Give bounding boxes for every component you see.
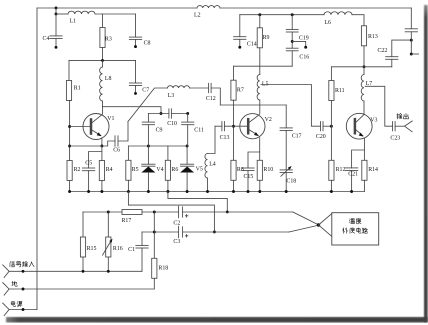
node: C19/C16 junction dot bbox=[291, 40, 294, 43]
wire: diagonal C2-line to converge point bbox=[293, 212, 319, 225]
svg-text:C15: C15 bbox=[244, 174, 254, 180]
node: dot (23,271.3) bbox=[22, 270, 25, 273]
wire: y=66.8 R11 to C22 bbox=[331, 66, 391, 68]
wire: L6 to R13 column bbox=[352, 15, 364, 26]
shadow: right band bbox=[424, 5, 428, 322]
wire: common rail y=191.5 bbox=[70, 191, 365, 193]
svg-text:C9: C9 bbox=[156, 127, 163, 133]
wire: C3 to diagonal bbox=[183, 231, 289, 233]
label: 温度 (temperature, box line 1) bbox=[349, 218, 361, 224]
node: dot R15 bottom bbox=[82, 270, 85, 273]
svg-text:R11: R11 bbox=[335, 88, 345, 94]
wire: mid feed y=14.7 (C14 to L6) bbox=[240, 14, 324, 16]
resistor R13 bbox=[361, 26, 377, 67]
svg-text:C1: C1 bbox=[128, 247, 135, 253]
node: dot C19 top (292.2,14.7) bbox=[291, 13, 294, 16]
svg-text:C6: C6 bbox=[113, 148, 120, 154]
wire: top supply rail (y=8) left of L2 bbox=[37, 7, 197, 9]
capacitor C18 (trimmer) bbox=[280, 166, 297, 192]
svg-text:R15: R15 bbox=[87, 246, 97, 252]
node: rail dot x=167.9 bbox=[166, 190, 169, 193]
inductor L7 bbox=[361, 67, 372, 114]
svg-text:C22: C22 bbox=[378, 48, 388, 54]
resistor R4 bbox=[99, 146, 112, 192]
node: V2 base junction dot bbox=[232, 125, 235, 128]
svg-text:C8: C8 bbox=[144, 41, 151, 47]
wire: diagonal C3-line to converge point bbox=[289, 225, 319, 232]
node: dot R16 top (108.3,212) bbox=[107, 211, 110, 214]
svg-text:C2: C2 bbox=[173, 221, 180, 227]
capacitor C10 bbox=[167, 108, 188, 127]
wire: emitter row y=146 bbox=[70, 145, 102, 147]
svg-text:R2: R2 bbox=[74, 167, 81, 173]
svg-text:R6: R6 bbox=[171, 167, 178, 173]
node: dot (154.3,212) bbox=[153, 211, 156, 214]
node: V1 emitter dot (101.9,146) bbox=[100, 145, 103, 148]
svg-text:C16: C16 bbox=[299, 54, 309, 60]
transistor V1 bbox=[83, 114, 114, 140]
svg-text:C10: C10 bbox=[167, 121, 177, 127]
svg-text:R7: R7 bbox=[237, 87, 244, 93]
wire: y=14 feed from stub to L1 bbox=[56, 13, 68, 15]
svg-text:R18: R18 bbox=[158, 266, 168, 272]
node: dot (411.3,40.1) bbox=[410, 39, 413, 42]
capacitor C20 bbox=[316, 121, 332, 140]
wire: C12 jog down to y=105 bbox=[211, 88, 220, 105]
varactor diode V5 bbox=[180, 146, 203, 192]
inductor L2 (in top rail) bbox=[194, 6, 220, 19]
wire: y=105 run to C17 column bbox=[220, 104, 286, 106]
svg-text:C4: C4 bbox=[43, 36, 50, 42]
node: dot (154.3,232) bbox=[153, 231, 156, 234]
svg-text:L4: L4 bbox=[209, 162, 216, 168]
svg-text:C13: C13 bbox=[220, 135, 230, 141]
wire: node wire y=66.2 (R7..C16) bbox=[234, 65, 293, 67]
svg-text:R13: R13 bbox=[368, 34, 378, 40]
label: 输出 (output) bbox=[397, 113, 409, 119]
svg-text:V1: V1 bbox=[107, 116, 114, 122]
svg-text:C21: C21 bbox=[348, 171, 358, 177]
resistor R5 bbox=[126, 146, 139, 192]
capacitor C14 bbox=[233, 15, 257, 49]
node: dot (214.4,231.9) bbox=[213, 230, 216, 233]
resistor R18 bbox=[152, 258, 169, 289]
capacitor C21 bbox=[345, 150, 364, 192]
label: 信号输入 (signal input) bbox=[10, 261, 34, 267]
wire: R7-R8 column through base node bbox=[233, 100, 235, 160]
inductor L4 bbox=[205, 126, 216, 191]
node: rail dot x=331.4 bbox=[330, 190, 333, 193]
capacitor C6 with jog from emitter bbox=[102, 122, 128, 154]
svg-text:C11: C11 bbox=[194, 127, 204, 133]
capacitor C5 bbox=[82, 152, 102, 192]
svg-text:R16: R16 bbox=[113, 246, 123, 252]
wire: R17 to C2 bbox=[142, 211, 179, 213]
wire: base/bias column x=69.6 (R1 to R2) bbox=[69, 101, 71, 161]
node: stub end dot (305.7,47.2) bbox=[304, 46, 307, 49]
capacitor C7 bbox=[129, 60, 149, 94]
svg-text:L3: L3 bbox=[168, 93, 175, 99]
node: V3 base junction dot bbox=[330, 125, 333, 128]
capacitor C11 bbox=[181, 114, 204, 147]
capacitor (top right, unlabeled) bbox=[405, 8, 418, 54]
wire: stub (56,8)-(56,14) bbox=[55, 8, 57, 14]
capacitor C22 bbox=[378, 40, 412, 67]
terminal: ground 地 bbox=[3, 283, 9, 296]
inductor L6 bbox=[324, 12, 352, 26]
resistor R3 bbox=[100, 14, 112, 60]
wire: ground row y=289 bbox=[9, 288, 154, 290]
wire: V2 base wire from L4 column via C13 bbox=[215, 125, 222, 127]
svg-text:V4: V4 bbox=[156, 167, 163, 173]
resistor R11 bbox=[329, 67, 345, 126]
node: rail dot x=69.6 bbox=[68, 190, 71, 193]
node: dot at (56,14) bbox=[55, 13, 58, 16]
svg-text:C12: C12 bbox=[206, 96, 216, 102]
capacitor C3 (electrolytic) bbox=[173, 226, 188, 245]
node: dot (23,309.5) bbox=[22, 308, 25, 311]
svg-text:C14: C14 bbox=[247, 42, 257, 48]
svg-text:V5: V5 bbox=[196, 167, 203, 173]
wire: V1 base wire bbox=[70, 126, 90, 128]
wire: y=212 from R15 to R17 bbox=[83, 211, 122, 213]
svg-text:R17: R17 bbox=[122, 218, 132, 224]
capacitor C15 bbox=[241, 152, 259, 192]
wire: L7 tap to output row bbox=[365, 86, 393, 126]
node: rail dot x=88.6 bbox=[87, 190, 90, 193]
capacitor C16 bbox=[286, 48, 309, 66]
resistor R16 (adjustable) bbox=[102, 212, 122, 271]
wire: signal input row y=271.3 bbox=[9, 270, 142, 272]
svg-text:R3: R3 bbox=[105, 36, 112, 42]
resistor R7 bbox=[231, 66, 244, 100]
node: dot C9/V4 (148.4,146) bbox=[147, 145, 150, 148]
node: rail dot x=286.2 bbox=[285, 190, 288, 193]
wire: node wire y=60.4 (R1/R3/L8/C7) bbox=[69, 59, 136, 61]
resistor R8 bbox=[231, 160, 244, 191]
terminal: signal input 信号输入 bbox=[3, 265, 9, 278]
node: rail dot x=207.5 bbox=[206, 190, 209, 193]
wire: y=113.5 to C10 bbox=[148, 113, 169, 115]
wire: column x=154.3 (R17 node to R18) bbox=[153, 212, 155, 258]
wire: bowtie opening to box bbox=[319, 214, 332, 237]
terminal: power 电源 bbox=[3, 303, 9, 316]
node: dot R16 bottom bbox=[107, 270, 110, 273]
wire: y=232 from C1 corner bbox=[142, 231, 179, 233]
node: dot (227.3,211.9) bbox=[226, 210, 229, 213]
node: dot R13/L7/R11/C22 junction bbox=[363, 65, 366, 68]
label: 电源 (power) bbox=[11, 301, 22, 307]
capacitor C4 bbox=[43, 14, 63, 49]
node: dot R9 top (259.8,14.7) bbox=[258, 13, 261, 16]
node: rail dot x=187.1 bbox=[186, 190, 189, 193]
node: dot (23,289) bbox=[22, 288, 25, 291]
capacitor C13 bbox=[220, 121, 247, 141]
node: rail dot x=248 bbox=[247, 190, 250, 193]
shadow: bottom band bbox=[6, 317, 428, 323]
box: temperature compensation circuit 温度补偿电路 bbox=[332, 213, 379, 245]
inductor L1 bbox=[68, 11, 95, 24]
svg-text:R12: R12 bbox=[336, 167, 346, 173]
svg-text:C3: C3 bbox=[173, 239, 180, 245]
svg-text:R4: R4 bbox=[106, 167, 113, 173]
node: rail dot x=101.9 bbox=[100, 190, 103, 193]
capacitor C23 bbox=[390, 121, 404, 141]
transistor V2 bbox=[240, 114, 272, 139]
node: dot R3-L8 junction (102.5,60.4) bbox=[101, 59, 104, 62]
node: rail dot x=148.4 bbox=[147, 190, 150, 193]
svg-text:C20: C20 bbox=[316, 134, 326, 140]
node: rail dot x=233.5 bbox=[232, 190, 235, 193]
node: rail tap dot at (56,8) bbox=[55, 7, 58, 10]
node: dot (411.3,54) with stub bbox=[410, 53, 419, 56]
node: dot at (69.6,146) bbox=[68, 145, 71, 148]
svg-text:R1: R1 bbox=[74, 86, 81, 92]
resistor R6 bbox=[165, 146, 178, 192]
node: dot (161,113.5) bbox=[160, 112, 163, 115]
wire: C2 to diagonal bbox=[183, 211, 293, 213]
svg-text:L2: L2 bbox=[194, 13, 201, 19]
resistor R1 bbox=[66, 60, 80, 100]
svg-text:R9: R9 bbox=[263, 35, 270, 41]
capacitor C17 bbox=[280, 105, 302, 170]
wire: V1 emitter drop bbox=[101, 138, 103, 146]
terminal: output 输出 bbox=[405, 121, 413, 132]
node: dot (187.7,113.5) bbox=[186, 112, 189, 115]
resistor R9 bbox=[257, 15, 269, 75]
capacitor C19 bbox=[286, 15, 309, 49]
svg-text:R5: R5 bbox=[132, 167, 139, 173]
inductor L8 bbox=[100, 60, 112, 113]
wire: L3 to C12 bbox=[190, 87, 209, 89]
svg-text:L1: L1 bbox=[70, 19, 77, 25]
label: 地 (ground) bbox=[12, 281, 17, 286]
capacitor C2 (electrolytic) bbox=[173, 206, 188, 227]
wire: top supply rail right of L2 bbox=[220, 7, 411, 9]
capacitor C12 bbox=[206, 83, 216, 102]
svg-text:V3: V3 bbox=[370, 117, 377, 123]
node: rail dot x=351.6 bbox=[350, 190, 353, 193]
label: 补偿电路 (compensation circuit, box line 2) bbox=[343, 228, 368, 234]
node: rail dot x=259.8 bbox=[258, 190, 261, 193]
inductor L5 bbox=[257, 75, 268, 114]
svg-text:R10: R10 bbox=[263, 167, 273, 173]
resistor R12 bbox=[329, 126, 346, 191]
svg-text:R14: R14 bbox=[368, 167, 378, 173]
wire: stub from C19/C16 junction bbox=[292, 41, 306, 47]
svg-text:L6: L6 bbox=[324, 20, 331, 26]
wire: V2 emitter drop bbox=[259, 138, 261, 161]
transistor V3 bbox=[346, 113, 377, 139]
resistor R10 bbox=[257, 160, 273, 191]
resistor R2 bbox=[67, 161, 81, 192]
svg-text:C7: C7 bbox=[142, 88, 149, 94]
wire: rail stub A to C3 line bbox=[128, 192, 214, 232]
wire: V3 emitter drop bbox=[363, 138, 365, 160]
resistor R14 bbox=[362, 160, 378, 191]
wire: V1 collector coupling y=106.7 bbox=[103, 107, 162, 114]
wire: power row to left drop bbox=[9, 309, 37, 311]
varactor diode V4 bbox=[141, 146, 163, 192]
svg-text:V2: V2 bbox=[265, 117, 272, 123]
svg-text:C23: C23 bbox=[390, 135, 400, 141]
wire: diagonal C6 to L3 bbox=[128, 88, 168, 122]
resistor R17 bbox=[122, 210, 143, 225]
wire: varactor row y=146 (R5..V5) bbox=[128, 145, 187, 147]
node: converge dot (318.5,225) bbox=[317, 223, 320, 226]
svg-text:L8: L8 bbox=[105, 76, 112, 82]
node: dot C11/V5 (187.1,146) bbox=[186, 145, 189, 148]
svg-text:C19: C19 bbox=[299, 35, 309, 41]
wire: left supply drop (x=37, power to rail) bbox=[36, 8, 38, 310]
capacitor C9 bbox=[142, 114, 163, 147]
wire: rail stub B to C2 line bbox=[168, 192, 227, 212]
capacitor C8 bbox=[129, 14, 151, 48]
wire: L5 tap to C20 bbox=[261, 85, 321, 127]
svg-text:C5: C5 bbox=[85, 160, 92, 166]
svg-text:C17: C17 bbox=[292, 133, 302, 139]
node: V1 base junction dot bbox=[68, 125, 71, 128]
inductor L3 bbox=[168, 86, 190, 100]
svg-text:C18: C18 bbox=[286, 179, 296, 185]
node: rail dot x=128.4 bbox=[127, 190, 130, 193]
resistor R15 bbox=[80, 212, 96, 271]
capacitor C1 bbox=[128, 232, 149, 271]
wire: y=14 feed L1 to C8 column bbox=[95, 13, 136, 15]
